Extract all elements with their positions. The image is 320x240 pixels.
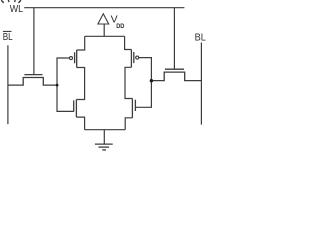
svg-text:BL: BL <box>195 32 207 43</box>
svg-text:DD: DD <box>116 23 125 30</box>
svg-text:BL: BL <box>3 32 13 43</box>
svg-text:WL: WL <box>10 4 24 15</box>
